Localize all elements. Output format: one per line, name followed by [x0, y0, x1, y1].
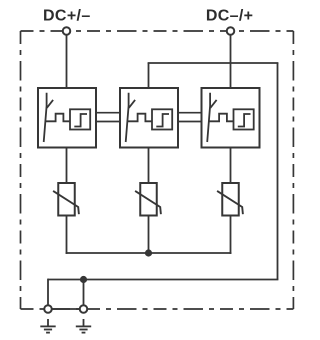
- varistor R1: [53, 183, 79, 216]
- svg-text:DC+/–: DC+/–: [43, 8, 91, 25]
- wire U1 to varistor R1: [66, 147, 68, 183]
- spark gap unit U2: [120, 88, 178, 148]
- device outline left edge (dash-dot border): [20, 31, 22, 309]
- ground symbol right: [76, 319, 91, 333]
- wire DC+ terminal to U1: [66, 31, 68, 89]
- wire PE branch down to U2: [148, 63, 150, 89]
- wire right riser to earth line: [277, 63, 279, 280]
- device outline top edge (dash-dot border): [21, 30, 294, 32]
- terminal DC-/+: [227, 27, 235, 35]
- device outline bottom edge (dash-dot border): [21, 308, 294, 310]
- wire R3 to star bus: [230, 216, 232, 254]
- terminal DC+/-: [63, 27, 71, 35]
- varistor R2: [135, 183, 161, 216]
- earth terminal left: [44, 305, 52, 313]
- wire earth line down to left earth terminal: [47, 279, 49, 309]
- wire earth line down to right earth terminal: [83, 280, 85, 310]
- coupling link U1-U2: [96, 113, 120, 122]
- wire R2 to star bus: [148, 216, 150, 254]
- coupling link U2-U3: [178, 113, 202, 122]
- ground symbol left: [40, 319, 55, 333]
- wire U3 to varistor R3: [230, 147, 232, 183]
- link between earth terminals: [48, 308, 84, 310]
- earth line: [48, 279, 278, 281]
- earth terminal right: [80, 305, 88, 313]
- junction dot star point: [145, 249, 152, 256]
- junction dot earth line: [80, 276, 87, 283]
- svg-text:DC–/+: DC–/+: [206, 8, 254, 25]
- star point bus: [66, 252, 232, 254]
- varistor R3: [217, 183, 243, 216]
- device outline right edge (dash-dot border): [292, 31, 294, 309]
- wire PE branch horizontal: [148, 62, 279, 64]
- wire R1 to star bus: [66, 216, 68, 254]
- spark gap unit U3: [202, 88, 260, 148]
- spark gap unit U1: [38, 88, 96, 148]
- wire U2 to varistor R2: [148, 147, 150, 183]
- wire DC- terminal to U3: [230, 31, 232, 89]
